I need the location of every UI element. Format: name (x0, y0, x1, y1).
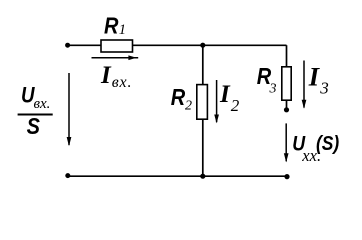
svg-text:вх.: вх. (34, 96, 51, 112)
svg-text:1: 1 (119, 22, 126, 38)
svg-text:2: 2 (185, 99, 192, 114)
arrow U input (left vertical arrow) (67, 73, 72, 146)
wire (R3 to node C) (286, 101, 288, 111)
wire (top-left node to R1) (68, 44, 101, 46)
wire (node B down to R2) (202, 45, 204, 84)
node A (top-left input node) (65, 43, 70, 48)
wire (top-right corner down to R3) (286, 45, 288, 66)
arrow I2 (214, 80, 219, 123)
node C (open-circuit output node) (284, 107, 289, 112)
resistor R3 (282, 67, 291, 100)
svg-text:R: R (104, 12, 119, 39)
wire (bottom rail) (68, 175, 287, 177)
svg-text:R: R (171, 84, 186, 111)
wire (R2 down to bottom wire) (202, 120, 204, 177)
svg-text:I: I (100, 62, 112, 89)
node F (bottom-right end) (284, 174, 289, 179)
svg-text:3: 3 (269, 81, 277, 96)
svg-text:3: 3 (319, 79, 329, 98)
svg-text:S: S (27, 113, 41, 140)
resistor R1 (101, 40, 133, 52)
arrow Ivx (input current arrow) (92, 55, 139, 60)
arrow I3 (302, 61, 307, 109)
svg-text:I: I (219, 81, 231, 108)
svg-text:2: 2 (231, 96, 240, 115)
node E (bottom junction under R2) (200, 174, 205, 179)
svg-text:вх.: вх. (112, 74, 132, 91)
svg-text:(S): (S) (316, 133, 339, 156)
node D (bottom-left) (65, 173, 70, 178)
wire (R1 to right corner) (133, 44, 287, 46)
svg-text:I: I (308, 62, 321, 92)
node B (junction above R2) (200, 43, 205, 48)
arrow Uxx (output voltage arrow) (284, 123, 289, 162)
resistor R2 (197, 85, 208, 120)
